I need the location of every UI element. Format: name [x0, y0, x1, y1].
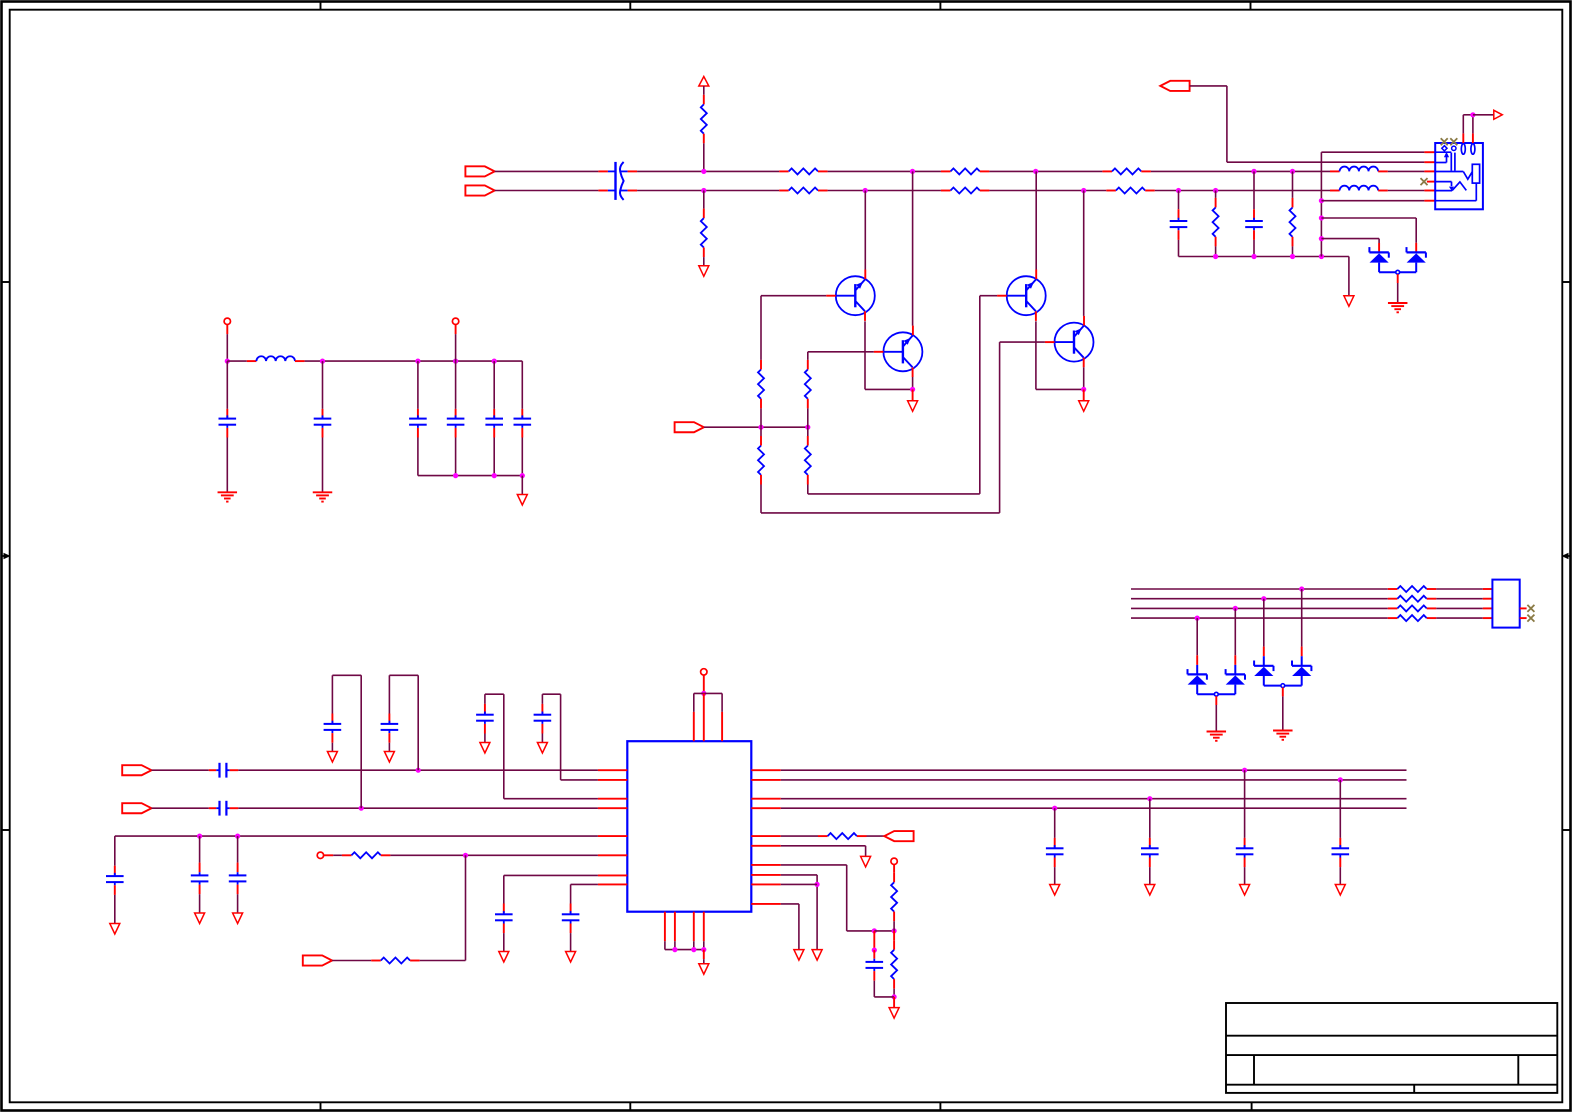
pin U1 left 4 [598, 807, 627, 809]
wire U1 pin R10 down to ground [781, 904, 799, 950]
wire cap branch down [873, 931, 875, 950]
wire U1 bottom 1 to bus [664, 941, 666, 949]
wire C10 to U1 pin1 [238, 769, 598, 771]
no-connect X J1 top 1 [1441, 138, 1448, 145]
pin U1 right 7 [751, 864, 781, 866]
junction RC node A [872, 928, 877, 933]
power arrow right [1494, 110, 1503, 119]
wire harness row 2 [1131, 598, 1388, 600]
pin J1.2 [1424, 161, 1435, 163]
terminal T1 [224, 318, 230, 324]
wire U1 bottom 4 to bus [703, 941, 705, 949]
connector P4 [675, 422, 704, 432]
resistor R20 [371, 958, 420, 964]
resistor R18 [1388, 615, 1437, 621]
wire R16 to J2 [1436, 598, 1483, 600]
wire P7 to R20 [332, 960, 371, 962]
ground arrow C22 [1145, 885, 1155, 896]
capacitor C23 [1236, 770, 1254, 884]
pin U1 right 3 [751, 798, 781, 800]
terminal T2 [452, 318, 458, 324]
pin U1 right 2 [751, 779, 781, 781]
resistor R12 [805, 360, 811, 409]
junction cap drop C2 top row [1251, 169, 1256, 174]
J1 top indicator circle [1452, 146, 1456, 150]
no-connect X J2 row3 [1527, 605, 1534, 612]
wire R11 to bias node [760, 408, 762, 427]
ground arrow C16 [110, 924, 120, 935]
wire Q1 emitter down [864, 321, 866, 389]
ground arrow below R2 [699, 266, 709, 277]
no-connect X at J1 pin4 [1421, 178, 1428, 185]
J1 internal tip contact and resistor box [1435, 164, 1479, 183]
pin J1 top A [1462, 133, 1464, 143]
wire Q3 emitter down [1035, 321, 1037, 389]
wire harness row 4 [1131, 617, 1388, 619]
wire U1 right rail 4 [781, 807, 1407, 809]
node circle D5/D6 [1281, 684, 1285, 688]
junction rail2 C24 [1338, 777, 1343, 782]
J1 internal ring contact [1435, 182, 1454, 191]
junction bus C8 [492, 473, 497, 478]
wire U1 pin R8 down to ground [781, 875, 817, 950]
capacitor C24 [1332, 780, 1350, 885]
wire row3 to D4 [1234, 608, 1236, 674]
transistor Q2 [874, 326, 923, 377]
J1 internal pin6 link [1435, 183, 1476, 201]
wire T2 down [455, 325, 457, 362]
diode D5 (TVS) [1254, 661, 1281, 686]
inductor L2 [1330, 186, 1388, 191]
pin J1.4 [1427, 181, 1435, 183]
capacitor C20 [562, 904, 580, 952]
pin U1 right 4 [751, 807, 781, 809]
wire Q1 collector up to bottom row [864, 191, 866, 270]
connector P6 [122, 803, 151, 813]
ground symbol C4 [218, 491, 238, 493]
ground symbol D5/D6 [1273, 730, 1293, 732]
wire Q1 base down [760, 296, 762, 360]
wire harness row 1 [1131, 588, 1388, 590]
junction row1 drop [1299, 586, 1304, 591]
pin U1 left 3 [598, 798, 627, 800]
capacitor C8 [485, 361, 503, 476]
capacitor C17 [191, 836, 209, 913]
wire U1 bottom 2 to bus [674, 941, 676, 949]
wire+pin U1 top left [693, 693, 695, 741]
ground arrow pin R8 [812, 950, 822, 961]
resistor R22 [891, 873, 897, 922]
pin U1 bottom 4 [703, 912, 705, 942]
capacitor C9 [514, 361, 532, 476]
wire bias node down to R13 [760, 427, 762, 436]
ground arrow C21 [1050, 885, 1060, 896]
ground arrow cap bank [517, 495, 527, 506]
pin J2.4 [1483, 617, 1493, 619]
wire R6 to R8 [989, 190, 1106, 192]
wire P6 to C11 [152, 807, 209, 809]
wire to power arrow right [1473, 114, 1494, 116]
junction bus C9 [520, 473, 525, 478]
junction Q2 emitter [910, 387, 915, 392]
ground symbol D3/D4 [1207, 731, 1227, 733]
diode D4 (TVS) [1218, 669, 1245, 694]
wire R17 to J2 [1436, 607, 1483, 609]
terminal T5 [891, 858, 897, 864]
pin U1 top middle [703, 693, 705, 741]
connector P7 [303, 955, 332, 965]
junction row4 drop [1195, 616, 1200, 621]
wire U1 bottom bus [665, 949, 704, 951]
border tick bottom 2 [629, 1102, 631, 1110]
wire row1 to D6 [1301, 589, 1303, 666]
wire corner down [1226, 86, 1228, 162]
wire R4 to R6 [828, 190, 941, 192]
wire J1 top A up [1463, 115, 1473, 134]
diode D6 (TVS) [1285, 661, 1312, 686]
wire feed vertical [1320, 152, 1322, 256]
capacitor C5 [314, 361, 332, 491]
pin U1 left 2 [598, 779, 627, 781]
wire row2 to D5 [1263, 599, 1265, 666]
capacitor C4 [219, 361, 237, 491]
ground arrow C19 [499, 952, 509, 963]
ground arrow top-right bus [1344, 296, 1354, 307]
border tick top 2 [629, 2, 631, 10]
junction bottom bus 1 [672, 947, 677, 952]
wire R14 to feedback rail 2 [808, 296, 980, 494]
capacitor C15 [534, 704, 552, 743]
wire hook B [389, 675, 418, 770]
wire T1 to L3 [227, 360, 247, 362]
border tick bottom 4 [1251, 1102, 1253, 1110]
node circle D3/D4 [1214, 692, 1218, 696]
resistor R11 [758, 360, 764, 409]
diode D1 (TVS) [1369, 247, 1395, 272]
pin U1 right 8 [751, 874, 781, 876]
pin U1 left 7 [598, 874, 627, 876]
junction bus R9 [1213, 254, 1218, 259]
junction row3 drop [1233, 606, 1238, 611]
wire P3 to corner [1190, 85, 1227, 87]
capacitor C22 [1141, 799, 1159, 885]
junction bottom bus 2 [691, 947, 696, 952]
resistor R1 pull-up [701, 95, 707, 144]
junction Q1 collector on bottom row [863, 188, 868, 193]
ground arrow C12 [327, 752, 337, 763]
junction rail T2 [453, 359, 458, 364]
audio jack J1 body [1435, 143, 1483, 209]
wire IC top bar [694, 692, 722, 694]
wire to J1 pin2 [1227, 161, 1425, 163]
wire U1 right rail 1 [781, 769, 1407, 771]
junction bias node 1 [758, 425, 763, 430]
junction bottom node [892, 994, 897, 999]
resistor R10 drop [1290, 171, 1296, 256]
wire R19 to U1 pin6 [390, 854, 598, 856]
transistor Q3 [997, 270, 1046, 321]
border tick top 1 [320, 2, 322, 10]
J1 top mount ovals [1461, 144, 1475, 155]
border center arrow right [1565, 555, 1571, 557]
wire bus to ground arrow [703, 950, 705, 964]
ground arrow RC network [889, 1008, 899, 1019]
wire T3 down [703, 675, 705, 693]
wire Q4 emitter down [1083, 367, 1085, 389]
wire hook C [485, 694, 598, 799]
pin U1 bottom 1 [664, 912, 666, 942]
wire R3 to R5 [828, 170, 941, 172]
border tick bottom 1 [320, 1102, 322, 1110]
junction Q4 emitter [1081, 387, 1086, 392]
wire row4 to D3 [1196, 618, 1198, 674]
resistor R23 [891, 940, 897, 989]
pin U1 bottom 2 [674, 912, 676, 942]
no-connect X J1 top 2 [1450, 138, 1457, 145]
wire U1 pin R9 tie [781, 883, 817, 885]
wire U1 bottom 3 to bus [693, 941, 695, 949]
wire R2 to ground arrow [703, 257, 705, 266]
wire Q4 emitter to ground [1083, 389, 1085, 400]
ground arrow C23 [1240, 885, 1250, 896]
wire U1 pin R6 to ground [781, 846, 866, 857]
title block [1226, 1003, 1557, 1093]
wire ground bus top-right [1179, 256, 1349, 258]
pin J1.3 [1424, 170, 1435, 172]
pin J1.1 [1424, 151, 1435, 153]
wire P2 to C1 [495, 190, 599, 192]
pin J2 right 3 [1520, 607, 1527, 609]
junction row2 drop [1261, 596, 1266, 601]
wire Q3 collector up to top row [1035, 171, 1037, 269]
ground arrow C14 [480, 743, 490, 754]
junction rail C17 [197, 834, 202, 839]
wire R20 up to pin6 node [420, 855, 466, 960]
wire R12 to bias node [807, 408, 809, 427]
wire U1 pin R7 down [781, 865, 875, 931]
junction bottom bus 3 [701, 947, 706, 952]
wire R18 to J2 [1436, 617, 1483, 619]
diode D2 (TVS) [1400, 247, 1426, 272]
wire Q2 base down [807, 352, 809, 360]
capacitor C12 [324, 714, 342, 752]
pin U1 right 10 [751, 903, 781, 905]
capacitor C14 [476, 704, 494, 743]
wire U1 pin R5 to R21 [781, 835, 818, 837]
pin U1 left 1 [598, 769, 627, 771]
wire U1 right rail 3 [781, 798, 1407, 800]
wire harness row 3 [1131, 607, 1388, 609]
wire hook D [542, 694, 598, 780]
wire Q3 base [980, 295, 997, 297]
junction Q2 collector on top row [910, 169, 915, 174]
ground arrow C15 [537, 743, 547, 754]
capacitor C25 [866, 950, 895, 997]
no-connect X J2 row4 [1527, 615, 1534, 622]
junction RC node B [892, 928, 897, 933]
pin U1 left 5 [598, 835, 627, 837]
junction bus R10 [1290, 254, 1295, 259]
junction T1 node [225, 359, 230, 364]
ground arrow C20 [566, 952, 576, 963]
junction rail C8 [492, 359, 497, 364]
resistor R19 [342, 852, 391, 858]
connector P1 [465, 166, 494, 176]
wire bus to ground arrow [1348, 257, 1350, 296]
junction J1 top [1470, 112, 1475, 117]
wire C11 to U1 pin4 [238, 807, 598, 809]
wire D5/D6 node to ground [1282, 688, 1284, 730]
junction feed D1 branch [1319, 236, 1324, 241]
connector P5 [122, 765, 151, 775]
wire feed to J1 pin6 [1321, 200, 1424, 202]
resistor R5 (top row series 2) [941, 168, 990, 174]
capacitor C13 [381, 714, 399, 752]
resistor R9 drop [1213, 191, 1219, 257]
wire T4 to R19 [324, 854, 342, 856]
junction pin R9 tie [815, 882, 820, 887]
junction bus C7 [453, 473, 458, 478]
border tick top 4 [1250, 2, 1252, 10]
resistor R8 (bottom row series 3) [1106, 188, 1155, 194]
wire R23 to bottom node [893, 989, 895, 997]
wire bottom row to R2 [703, 191, 705, 209]
wire feed top to J1 pin1 [1321, 151, 1424, 153]
wire U1 pin8 to C20 [571, 884, 598, 903]
junction cap drop C3 bottom row [1176, 188, 1181, 193]
wire Q3/Q4 emitter link [1036, 388, 1084, 390]
connector J2 body [1492, 580, 1519, 628]
wire U1 right rail 2 [781, 779, 1407, 781]
wire RC link [874, 930, 894, 932]
wire U1 pin7 to C19 [504, 875, 598, 903]
wire P4 to bias network [704, 426, 808, 428]
capacitor C21 [1046, 808, 1064, 884]
inductor L3 [247, 356, 305, 361]
border tick right upper [1562, 281, 1570, 283]
wire hook A [332, 675, 361, 808]
resistor R17 [1388, 605, 1437, 611]
wire Q1/Q2 emitter link [865, 388, 913, 390]
wire bus to ground arrow [521, 476, 523, 495]
wire bottom node to ground [893, 997, 895, 1008]
wire R7 to L1 [1151, 170, 1330, 172]
wire R13 to feedback rail [761, 342, 1000, 513]
border tick right lower [1562, 829, 1570, 831]
J1 internal switch contacts [1435, 152, 1455, 171]
resistor R21 [818, 833, 867, 839]
junction bus C2 [1251, 254, 1256, 259]
border tick left upper [2, 281, 10, 283]
resistor R13 [758, 436, 764, 485]
border tick top 3 [939, 2, 941, 10]
wire R1 to top row [703, 143, 705, 171]
ground arrow C13 [384, 752, 394, 763]
wire R5 to R7 [989, 170, 1102, 172]
node circle D1/D2 [1396, 270, 1400, 274]
wire feed to D1 [1321, 239, 1379, 253]
wire Q2 collector up to top row [912, 171, 914, 325]
pin J2.2 [1483, 598, 1493, 600]
wire T5 to R22 [893, 865, 895, 873]
IC U1 body [627, 741, 751, 912]
power arrow VCC top [699, 77, 709, 87]
wire L2 to J1 pin5 [1388, 190, 1425, 192]
resistor R3 (top row series) [779, 168, 828, 174]
resistor R2 pull-down [701, 209, 707, 258]
terminal T3 [701, 669, 707, 675]
pin U1 bottom 3 [693, 912, 695, 942]
junction bias node 2 [805, 425, 810, 430]
pin U1 right 5 [751, 835, 781, 837]
resistor R6 (bottom row series 2) [941, 188, 990, 194]
wire Q4 collector up to bottom row [1083, 191, 1085, 316]
junction feed pin6 branch [1319, 198, 1324, 203]
junction rail4 C21 [1052, 806, 1057, 811]
wire D3/D4 node to ground [1215, 696, 1217, 731]
wire RC node to R23 [893, 931, 895, 940]
wire+pin U1 top right [721, 693, 723, 741]
junction cap branch [872, 948, 877, 953]
connector P3 (left-pointing) [1160, 81, 1189, 91]
ground arrow C18 [233, 913, 243, 924]
resistor R7 (top row series 3) [1102, 168, 1151, 174]
pin U1 left 6 [598, 854, 627, 856]
wire Q2 emitter down [912, 377, 914, 389]
resistor R4 (bottom row series) [779, 188, 828, 194]
ground symbol D1/D2 [1388, 302, 1408, 304]
capacitor C1 (dual feedthrough, polarized plates) [598, 162, 637, 200]
border tick bottom 3 [939, 1102, 941, 1110]
J1 top indicator diamond [1442, 146, 1447, 151]
junction bus vertical [1319, 254, 1324, 259]
transistor Q1 [826, 270, 875, 321]
capacitor C6 [409, 361, 427, 476]
ground arrow pin R6 [861, 856, 871, 867]
junction pin6/P7 node [463, 853, 468, 858]
pin U1 right 1 [751, 769, 781, 771]
capacitor C7 [447, 361, 465, 476]
junction res drop R10 top row [1290, 169, 1295, 174]
ground arrow pin R10 [794, 950, 804, 961]
capacitor C3 drop [1170, 191, 1188, 257]
junction rail C5 [320, 359, 325, 364]
pin J1.5 [1424, 190, 1435, 192]
wire R22 to RC node [893, 921, 895, 931]
capacitor C16 [106, 836, 124, 923]
wire P1 to C1 [495, 170, 599, 172]
border tick left lower [2, 829, 10, 831]
capacitor C19 [495, 904, 513, 952]
wire D1/D2 node to ground [1397, 274, 1399, 302]
pin J1 top B [1472, 133, 1474, 143]
wire Q2 base [808, 351, 874, 353]
wire U1 pin5 rail [115, 835, 598, 837]
ground arrow Q1/Q2 [908, 401, 918, 412]
pin J2.1 [1483, 588, 1493, 590]
pin U1 right 6 [751, 845, 781, 847]
junction hookB on wire1 [416, 768, 421, 773]
wire C1 to node A (top row) [637, 170, 779, 172]
wire R8 to L2 [1155, 190, 1330, 192]
pin U1 left 8 [598, 883, 627, 885]
resistor R15 [1388, 586, 1437, 592]
junction Q3 collector on top row [1033, 169, 1038, 174]
capacitor C18 [229, 836, 247, 913]
junction rail C6 [415, 359, 420, 364]
pin U1 right 9 [751, 883, 781, 885]
junction R1/top row [701, 169, 706, 174]
